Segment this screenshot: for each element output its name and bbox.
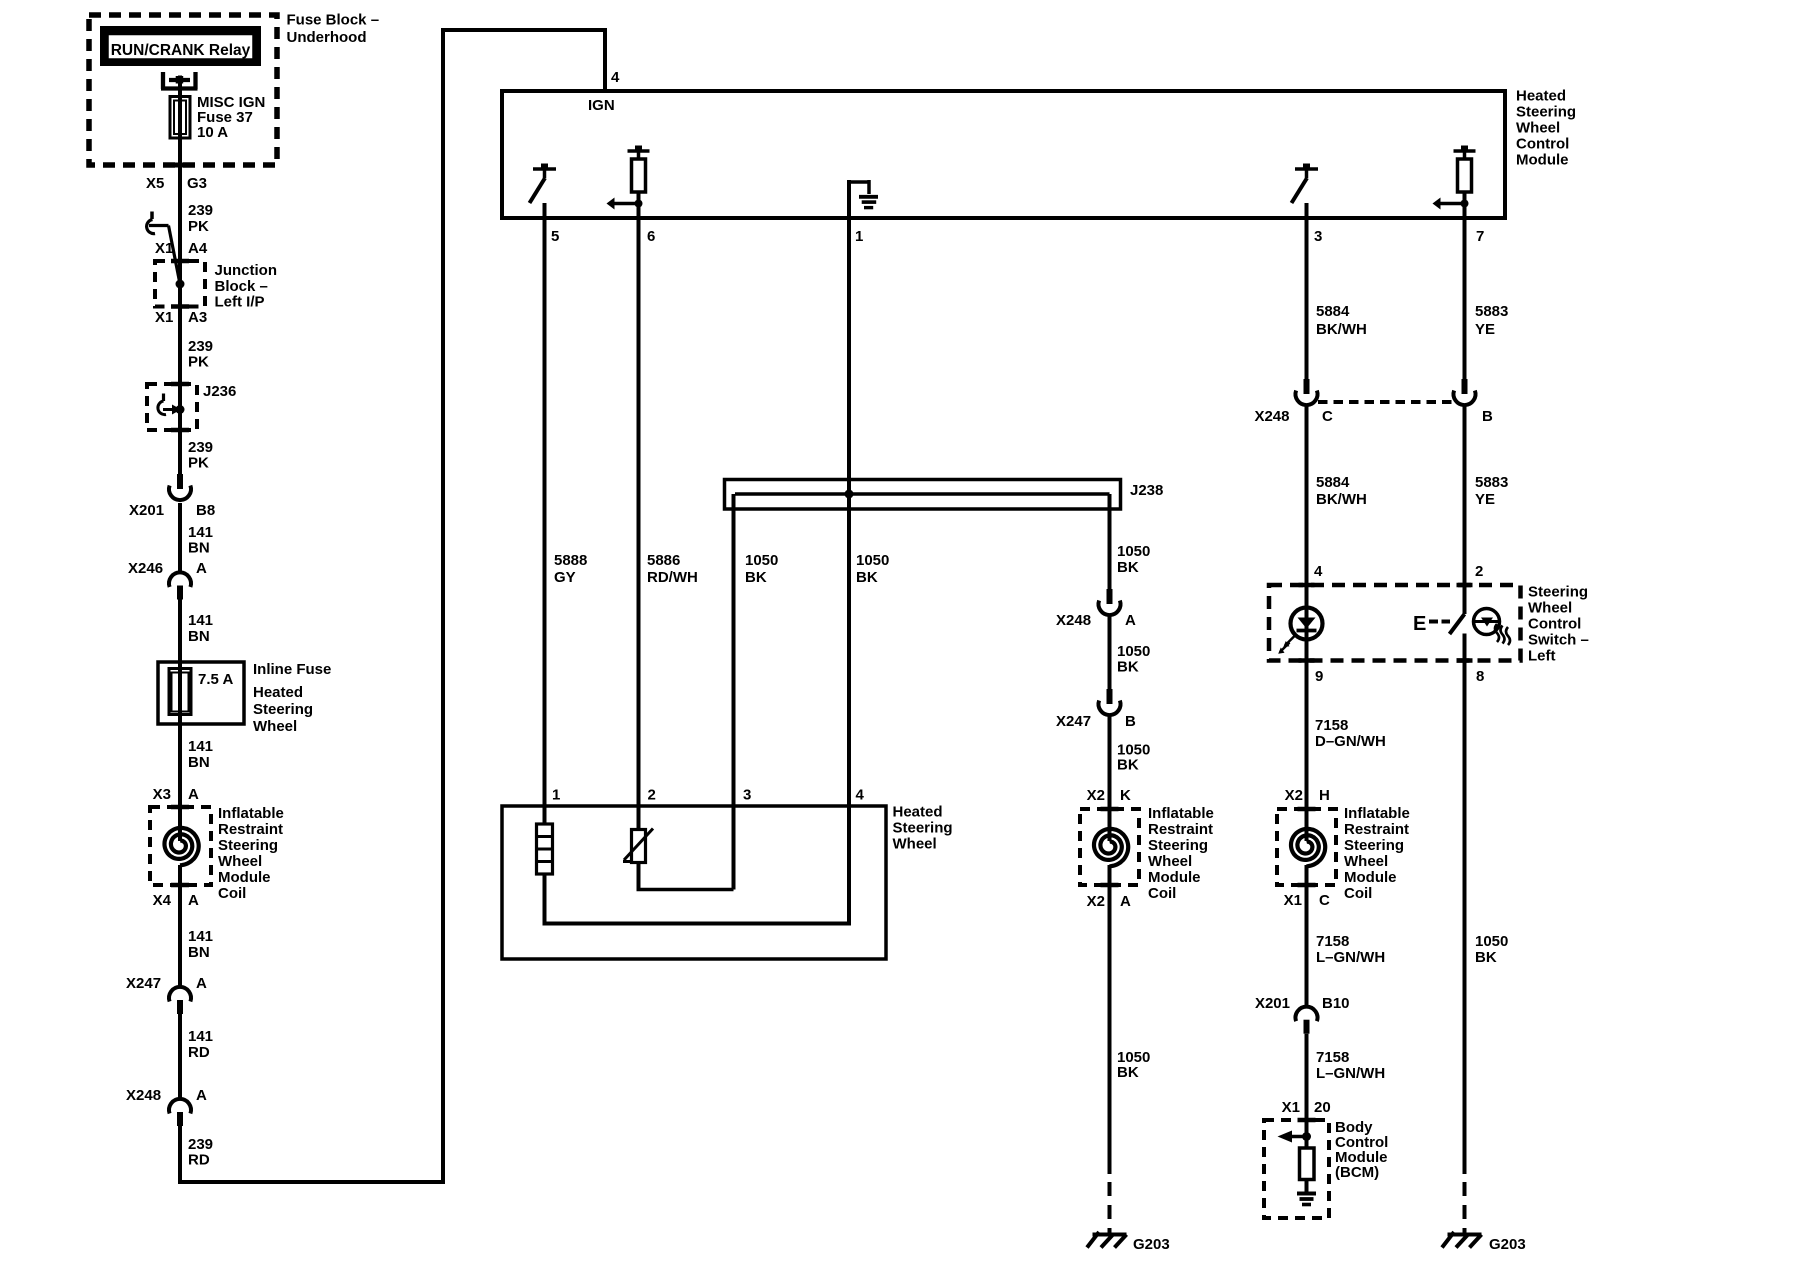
svg-text:Left I/P: Left I/P <box>215 294 265 311</box>
svg-text:YE: YE <box>1475 321 1495 338</box>
svg-text:X201: X201 <box>1255 995 1290 1012</box>
svg-text:8: 8 <box>1476 668 1484 685</box>
svg-text:A3: A3 <box>188 309 207 326</box>
svg-text:BN: BN <box>188 628 210 645</box>
svg-text:4: 4 <box>611 69 620 86</box>
svg-text:L–GN/WH: L–GN/WH <box>1316 1065 1385 1082</box>
svg-text:PK: PK <box>188 354 209 371</box>
svg-text:IGN: IGN <box>588 97 615 114</box>
svg-text:K: K <box>1120 787 1131 804</box>
svg-text:Fuse Block –: Fuse Block – <box>287 12 380 29</box>
svg-text:Restraint: Restraint <box>1148 821 1213 838</box>
svg-text:E: E <box>1413 613 1426 635</box>
svg-text:A: A <box>196 1087 207 1104</box>
svg-text:RD/WH: RD/WH <box>647 569 698 586</box>
svg-text:Switch –: Switch – <box>1528 632 1589 649</box>
svg-text:Wheel: Wheel <box>218 853 262 870</box>
svg-text:BK: BK <box>1117 659 1139 676</box>
svg-text:5886: 5886 <box>647 552 680 569</box>
svg-text:BK/WH: BK/WH <box>1316 491 1367 508</box>
svg-text:A4: A4 <box>188 240 208 257</box>
svg-text:141: 141 <box>188 612 213 629</box>
svg-text:Module: Module <box>1148 869 1201 886</box>
svg-text:G3: G3 <box>187 175 207 192</box>
svg-text:1050: 1050 <box>745 552 778 569</box>
svg-text:5888: 5888 <box>554 552 587 569</box>
svg-text:BK: BK <box>745 569 767 586</box>
svg-text:C: C <box>1322 408 1333 425</box>
svg-text:Wheel: Wheel <box>1148 853 1192 870</box>
svg-text:5884: 5884 <box>1316 474 1350 491</box>
svg-text:10 A: 10 A <box>197 124 228 141</box>
svg-text:5883: 5883 <box>1475 474 1508 491</box>
svg-text:BK: BK <box>1475 949 1497 966</box>
svg-text:BK/WH: BK/WH <box>1316 321 1367 338</box>
svg-text:Inflatable: Inflatable <box>1148 805 1214 822</box>
svg-text:141: 141 <box>188 1028 213 1045</box>
svg-text:X248: X248 <box>1056 612 1091 629</box>
svg-text:X2: X2 <box>1087 893 1105 910</box>
svg-text:3: 3 <box>1314 228 1322 245</box>
svg-text:Heated: Heated <box>253 684 303 701</box>
svg-text:141: 141 <box>188 928 213 945</box>
svg-text:Wheel: Wheel <box>1516 120 1560 137</box>
svg-text:141: 141 <box>188 738 213 755</box>
svg-text:2: 2 <box>1475 563 1483 580</box>
svg-text:Wheel: Wheel <box>1528 600 1572 617</box>
svg-text:D–GN/WH: D–GN/WH <box>1315 733 1386 750</box>
svg-text:1050: 1050 <box>856 552 889 569</box>
svg-text:Restraint: Restraint <box>218 821 283 838</box>
svg-text:7158: 7158 <box>1316 1049 1349 1066</box>
svg-text:BK: BK <box>856 569 878 586</box>
svg-text:BN: BN <box>188 944 210 961</box>
svg-text:Restraint: Restraint <box>1344 821 1409 838</box>
svg-text:Block –: Block – <box>215 278 268 295</box>
svg-text:A: A <box>1125 612 1136 629</box>
svg-text:RUN/CRANK Relay: RUN/CRANK Relay <box>111 42 251 59</box>
svg-text:141: 141 <box>188 524 213 541</box>
svg-text:RD: RD <box>188 1044 210 1061</box>
svg-text:G203: G203 <box>1133 1236 1170 1253</box>
svg-text:Steering: Steering <box>253 701 313 718</box>
svg-text:X248: X248 <box>1254 408 1289 425</box>
svg-text:Steering: Steering <box>1148 837 1208 854</box>
svg-text:RD: RD <box>188 1152 210 1169</box>
svg-text:Left: Left <box>1528 648 1556 665</box>
svg-text:X247: X247 <box>126 975 161 992</box>
svg-text:A: A <box>196 560 207 577</box>
svg-text:9: 9 <box>1315 668 1323 685</box>
svg-text:X1: X1 <box>1282 1099 1300 1116</box>
svg-text:X3: X3 <box>153 786 171 803</box>
svg-text:X246: X246 <box>128 560 163 577</box>
svg-text:X247: X247 <box>1056 713 1091 730</box>
svg-text:1050: 1050 <box>1117 643 1150 660</box>
svg-text:20: 20 <box>1314 1099 1331 1116</box>
svg-text:X1: X1 <box>1284 892 1302 909</box>
svg-text:Coil: Coil <box>218 885 246 902</box>
svg-text:PK: PK <box>188 455 209 472</box>
svg-text:J238: J238 <box>1130 482 1163 499</box>
svg-text:X2: X2 <box>1285 787 1303 804</box>
svg-text:5884: 5884 <box>1316 303 1350 320</box>
svg-text:5: 5 <box>551 228 559 245</box>
svg-text:6: 6 <box>647 228 655 245</box>
svg-text:Coil: Coil <box>1148 885 1176 902</box>
svg-text:1: 1 <box>855 228 863 245</box>
svg-text:A: A <box>188 786 199 803</box>
svg-text:Control: Control <box>1528 616 1581 633</box>
svg-text:Heated: Heated <box>1516 88 1566 105</box>
svg-text:BK: BK <box>1117 757 1139 774</box>
svg-text:Steering: Steering <box>1516 104 1576 121</box>
svg-text:B10: B10 <box>1322 995 1350 1012</box>
svg-text:C: C <box>1319 892 1330 909</box>
svg-text:A: A <box>196 975 207 992</box>
svg-text:2: 2 <box>648 787 656 804</box>
svg-text:239: 239 <box>188 1136 213 1153</box>
svg-text:1050: 1050 <box>1117 543 1150 560</box>
svg-text:Heated: Heated <box>893 804 943 821</box>
svg-text:Module: Module <box>1344 869 1397 886</box>
svg-text:1: 1 <box>552 787 560 804</box>
svg-text:B: B <box>1125 713 1136 730</box>
svg-text:Inflatable: Inflatable <box>218 805 284 822</box>
svg-text:Inline Fuse: Inline Fuse <box>253 661 331 678</box>
svg-text:7158: 7158 <box>1316 933 1349 950</box>
svg-text:GY: GY <box>554 569 576 586</box>
svg-text:5883: 5883 <box>1475 303 1508 320</box>
svg-text:BN: BN <box>188 754 210 771</box>
svg-text:X201: X201 <box>129 502 164 519</box>
svg-text:J236: J236 <box>203 383 236 400</box>
svg-text:7: 7 <box>1476 228 1484 245</box>
svg-text:Control: Control <box>1516 136 1569 153</box>
svg-text:BK: BK <box>1117 1064 1139 1081</box>
svg-text:Junction: Junction <box>215 262 278 279</box>
svg-text:4: 4 <box>856 787 865 804</box>
svg-text:Wheel: Wheel <box>1344 853 1388 870</box>
svg-text:1050: 1050 <box>1475 933 1508 950</box>
svg-text:239: 239 <box>188 202 213 219</box>
svg-text:X1: X1 <box>155 309 173 326</box>
svg-text:(BCM): (BCM) <box>1335 1164 1379 1181</box>
svg-text:B: B <box>1482 408 1493 425</box>
svg-text:Steering: Steering <box>1528 584 1588 601</box>
svg-text:G203: G203 <box>1489 1236 1526 1253</box>
svg-text:BK: BK <box>1117 559 1139 576</box>
svg-text:7158: 7158 <box>1315 717 1348 734</box>
svg-text:Steering: Steering <box>893 820 953 837</box>
svg-text:239: 239 <box>188 338 213 355</box>
svg-text:A: A <box>188 892 199 909</box>
svg-text:Module: Module <box>218 869 271 886</box>
svg-text:7.5 A: 7.5 A <box>198 671 233 688</box>
svg-text:X1: X1 <box>155 240 173 257</box>
svg-text:3: 3 <box>743 787 751 804</box>
svg-text:Wheel: Wheel <box>893 836 937 853</box>
svg-text:YE: YE <box>1475 491 1495 508</box>
svg-text:Wheel: Wheel <box>253 718 297 735</box>
svg-text:X2: X2 <box>1087 787 1105 804</box>
svg-text:PK: PK <box>188 218 209 235</box>
svg-text:X4: X4 <box>153 892 172 909</box>
svg-text:Coil: Coil <box>1344 885 1372 902</box>
svg-text:H: H <box>1319 787 1330 804</box>
svg-text:X5: X5 <box>146 175 164 192</box>
svg-text:Module: Module <box>1516 152 1569 169</box>
svg-text:B8: B8 <box>196 502 215 519</box>
svg-text:BN: BN <box>188 540 210 557</box>
svg-text:Steering: Steering <box>218 837 278 854</box>
svg-text:Inflatable: Inflatable <box>1344 805 1410 822</box>
svg-text:L–GN/WH: L–GN/WH <box>1316 949 1385 966</box>
svg-text:239: 239 <box>188 439 213 456</box>
svg-text:X248: X248 <box>126 1087 161 1104</box>
svg-text:Steering: Steering <box>1344 837 1404 854</box>
svg-text:Underhood: Underhood <box>287 29 367 46</box>
svg-text:4: 4 <box>1314 563 1323 580</box>
svg-text:A: A <box>1120 893 1131 910</box>
